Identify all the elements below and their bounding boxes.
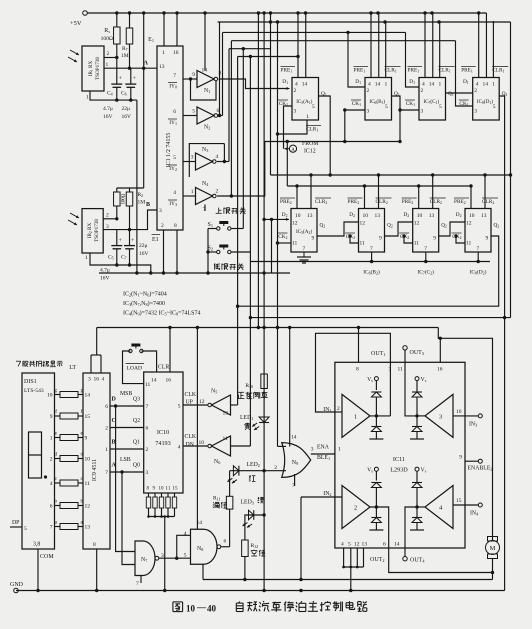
svg-text:14: 14 (394, 542, 400, 548)
svg-text:+5V: +5V (70, 20, 82, 27)
svg-text:IC11: IC11 (393, 456, 405, 463)
wire CK(C2) (404, 236, 413, 243)
LED3 green (248, 514, 265, 516)
junction (343, 140, 346, 143)
svg-text:1: 1 (338, 447, 341, 453)
svg-text:IN4: IN4 (470, 511, 479, 517)
wire TSOP2 out B (103, 210, 157, 230)
junction (483, 173, 486, 176)
wire N2 out (218, 115, 223, 117)
svg-text:11: 11 (292, 241, 298, 247)
wire bus56 PRE1 (238, 56, 298, 58)
svg-text:D2: D2 (282, 212, 288, 218)
junction (329, 173, 332, 176)
svg-text:CLK: CLK (185, 434, 197, 440)
junction (262, 218, 265, 221)
Vs terminal 4 (415, 467, 419, 471)
svg-text:N3: N3 (202, 147, 208, 153)
svg-text:10: 10 (363, 213, 369, 219)
wire v-G (249, 57, 251, 447)
wire N8 vcc (196, 328, 198, 530)
svg-text:2: 2 (161, 223, 164, 229)
wire N3 loop (189, 144, 224, 177)
svg-text:10: 10 (47, 393, 53, 399)
junction (196, 326, 199, 329)
junction (168, 326, 171, 329)
svg-text:CLR1: CLR1 (439, 68, 451, 74)
wire IN4 (453, 504, 478, 506)
svg-text:2: 2 (294, 88, 297, 94)
svg-text:5: 5 (439, 104, 442, 110)
wire CK(C1) feed (400, 109, 419, 111)
junction (262, 326, 265, 329)
svg-text:3: 3 (88, 377, 91, 383)
svg-text:D1: D1 (282, 79, 288, 85)
svg-text:10: 10 (295, 213, 301, 219)
node OUT3 (403, 346, 407, 350)
svg-text:C7: C7 (121, 255, 127, 261)
svg-text:10: 10 (417, 213, 423, 219)
svg-text:DN: DN (186, 442, 195, 448)
wire IN1 (335, 411, 342, 413)
junction (469, 184, 472, 187)
svg-text:4: 4 (184, 531, 187, 537)
wire Q(A2)-D(B2) (317, 222, 359, 236)
svg-text:Q2: Q2 (320, 223, 326, 229)
LED2 red (233, 466, 239, 476)
svg-text:TSOP1738: TSOP1738 (94, 219, 100, 242)
wire Q(D2) out (238, 236, 499, 306)
wire IY0 (183, 78, 197, 80)
switch S2 (217, 250, 220, 253)
svg-text:11: 11 (166, 487, 171, 492)
buffer 4 (425, 486, 453, 529)
svg-text:2: 2 (107, 51, 110, 57)
junction (299, 578, 302, 581)
svg-text:12: 12 (466, 221, 472, 227)
inverter N5 (212, 395, 231, 415)
wire clkdn (183, 445, 208, 447)
svg-text:15: 15 (85, 414, 91, 420)
junction (304, 11, 307, 14)
wire IN2 drop (300, 497, 302, 580)
svg-text:CK1: CK1 (352, 101, 361, 107)
svg-text:10: 10 (85, 457, 91, 463)
svg-text:1: 1 (492, 82, 495, 88)
resistor segment c (55, 482, 61, 484)
svg-text:6: 6 (50, 504, 53, 510)
ground A2 (303, 252, 305, 257)
wire S common (207, 229, 209, 274)
wire BCD B (110, 448, 144, 450)
svg-text:R10: R10 (245, 383, 253, 389)
wire load right (141, 351, 156, 372)
svg-text:5: 5 (173, 155, 176, 161)
label upper limit switch (218, 208, 220, 214)
svg-text:M: M (490, 545, 496, 552)
svg-text:1: 1 (50, 436, 53, 442)
wire IC1 pin2 gnd (163, 230, 165, 273)
wire trunk N5feed (237, 57, 239, 308)
wire CK(B2) (350, 236, 359, 243)
junction (276, 132, 279, 135)
svg-text:7: 7 (136, 581, 139, 587)
junction (162, 11, 165, 14)
junction (477, 11, 480, 14)
resistor R7 1M (129, 13, 131, 28)
junction (223, 160, 226, 163)
svg-text:Q2: Q2 (441, 223, 447, 229)
svg-text:7: 7 (146, 404, 149, 410)
svg-text:LED2: LED2 (247, 462, 260, 468)
wire VCC (378, 13, 380, 78)
svg-text:OUT4: OUT4 (410, 558, 425, 564)
junction (175, 11, 178, 14)
wire N8 out (221, 546, 230, 548)
junction (377, 173, 380, 176)
motor M (488, 537, 498, 542)
svg-text:4: 4 (341, 542, 344, 548)
svg-text:11: 11 (466, 241, 472, 247)
svg-text:12: 12 (85, 504, 91, 510)
junction (142, 11, 145, 14)
wire v271 gnd (271, 219, 273, 273)
svg-text:IC6(B1): IC6(B1) (369, 98, 385, 105)
wire IY2 (183, 161, 196, 163)
wire N3 out (217, 161, 229, 163)
resistor segment a (55, 526, 61, 528)
svg-text:IY1: IY1 (169, 120, 177, 126)
svg-text:3: 3 (439, 414, 442, 421)
flip-flop IC_{7}(C_{1}) (419, 78, 446, 121)
wire bus CLR1 (218, 21, 511, 23)
svg-text:16: 16 (94, 377, 100, 383)
svg-text:N6: N6 (214, 459, 220, 465)
svg-text:5: 5 (493, 104, 496, 110)
svg-text:10: 10 (186, 604, 196, 614)
svg-text:6: 6 (146, 426, 149, 432)
svg-text:d: d (54, 452, 57, 458)
wire CK A1 (284, 106, 293, 149)
svg-text:7: 7 (303, 246, 306, 252)
wire trunk x270 (270, 13, 272, 175)
svg-text:9: 9 (50, 414, 53, 420)
svg-text:Vs: Vs (367, 377, 373, 383)
IR arrows (70, 213, 79, 218)
svg-text:11: 11 (414, 241, 420, 247)
junction (342, 566, 345, 569)
svg-text:DP: DP (12, 520, 19, 526)
wire PRE2 (418, 186, 420, 209)
wire N8 gnd (202, 564, 204, 579)
wire N6 in (231, 445, 251, 447)
ground d1 (369, 438, 383, 440)
svg-text:OUT1: OUT1 (371, 351, 386, 357)
svg-text:6: 6 (383, 542, 386, 548)
svg-text:16V: 16V (103, 114, 113, 120)
wire buf4 node (417, 506, 425, 508)
svg-text:S1: S1 (208, 222, 214, 228)
svg-text:6: 6 (173, 109, 176, 115)
svg-text:1: 1 (86, 95, 89, 101)
resistor R12 (245, 515, 248, 540)
junction (163, 515, 166, 518)
svg-text:PRE2: PRE2 (348, 199, 360, 205)
switch S1 (217, 227, 220, 230)
wire rnet gnd (164, 517, 166, 591)
wire CK(B1) feed (345, 110, 365, 142)
resistor network (161, 493, 163, 497)
svg-text:CLR1: CLR1 (385, 68, 397, 74)
svg-text:3: 3 (367, 109, 370, 115)
wire PRE2 (296, 186, 298, 209)
junction (375, 505, 378, 508)
svg-text:4: 4 (295, 82, 298, 88)
svg-text:2: 2 (367, 88, 370, 94)
svg-text:D1: D1 (409, 79, 415, 85)
svg-text:4: 4 (422, 82, 425, 88)
wire LED2 branch (230, 470, 286, 472)
wire D(C1) feed (406, 32, 420, 87)
junction (135, 271, 138, 274)
svg-text:CLR1: CLR1 (492, 68, 504, 74)
svg-text:22μ: 22μ (139, 243, 148, 249)
svg-text:1M: 1M (138, 200, 146, 206)
svg-text:4: 4 (50, 481, 53, 487)
svg-text:S2: S2 (208, 246, 214, 252)
junction (503, 316, 506, 319)
wire pin8 vcc (358, 328, 360, 363)
resistor R3 100ohm body (126, 192, 133, 206)
svg-text:Q2: Q2 (133, 418, 140, 424)
junction (276, 326, 279, 329)
svg-text:g: g (54, 388, 57, 394)
svg-text:Q1: Q1 (448, 91, 454, 97)
svg-text:LED3: LED3 (241, 500, 254, 506)
resistor segment d (55, 458, 61, 460)
diode pair 3 (412, 392, 422, 397)
Vs terminal 1 (374, 377, 378, 381)
svg-text:PRE2: PRE2 (280, 199, 292, 205)
junction (257, 11, 260, 14)
resistor Rs 100ohm (116, 13, 118, 27)
junction (276, 20, 279, 23)
junction (417, 184, 420, 187)
wire N9 out (311, 453, 335, 455)
svg-text:10: 10 (456, 409, 462, 415)
wire pin14 internal (405, 507, 417, 548)
svg-text:15: 15 (173, 487, 179, 492)
wire BCD A (110, 471, 144, 473)
svg-text:5: 5 (24, 526, 27, 532)
svg-text:Vs: Vs (367, 468, 373, 474)
ground d2 (369, 529, 383, 531)
wire N5 in (231, 404, 238, 406)
buffer 3 (425, 394, 453, 437)
svg-text:C5: C5 (108, 255, 114, 261)
junction (309, 173, 312, 176)
svg-text:1: 1 (162, 50, 165, 56)
svg-text:12: 12 (199, 399, 205, 405)
diode pair 2 (371, 483, 381, 488)
IR receiver IR2 RX TSOP1738 (82, 209, 103, 253)
resistor R10 (261, 374, 268, 389)
svg-text:N4: N4 (202, 181, 209, 187)
junction (230, 194, 233, 197)
junction (162, 271, 165, 274)
svg-text:2: 2 (474, 88, 477, 94)
svg-text:D1: D1 (355, 79, 361, 85)
caption (173, 601, 183, 603)
svg-text:IC12: IC12 (304, 149, 316, 155)
wire trunk x277 (277, 22, 279, 446)
junction (114, 404, 117, 407)
svg-text:1: 1 (306, 114, 309, 120)
svg-text:IC4(N9)=7432 IC5~IC8=74LS74: IC4(N9)=7432 IC5~IC8=74LS74 (123, 310, 201, 317)
junction (249, 316, 252, 319)
wire D(B1) feed (348, 32, 365, 87)
svg-text:13: 13 (429, 213, 435, 219)
junction (257, 326, 260, 329)
svg-text:4: 4 (178, 445, 181, 451)
wire N7 out (159, 557, 191, 559)
junction (269, 11, 272, 14)
svg-text:N5: N5 (211, 389, 217, 395)
svg-text:1: 1 (105, 447, 108, 453)
svg-text:IC2(N1~N6)=7404: IC2(N1~N6)=7404 (123, 291, 167, 298)
svg-text:IY2: IY2 (169, 166, 177, 172)
svg-text:Q1: Q1 (133, 440, 140, 446)
svg-text:Q2: Q2 (387, 223, 393, 229)
svg-text:IC6(B2): IC6(B2) (363, 269, 380, 276)
wire TSOP2 pin2 (103, 218, 117, 220)
wire PRE (424, 13, 426, 78)
svg-text:15: 15 (456, 498, 462, 504)
svg-text:R7: R7 (122, 46, 128, 52)
junction (243, 578, 246, 581)
svg-text:14: 14 (429, 82, 435, 88)
wire IC9 gnd (96, 549, 98, 591)
svg-text:CLR: CLR (158, 365, 169, 371)
svg-text:FROM: FROM (302, 141, 318, 147)
svg-text:11: 11 (85, 481, 91, 487)
svg-text:A: A (291, 148, 295, 153)
svg-text:CLK: CLK (185, 392, 197, 398)
svg-text:2: 2 (216, 189, 219, 195)
svg-text:1: 1 (106, 62, 109, 68)
svg-text:3,8: 3,8 (33, 542, 40, 548)
wire VCC (305, 13, 307, 78)
wire BCD D (110, 405, 144, 407)
wire CLR2 (378, 175, 380, 209)
svg-text:16: 16 (173, 50, 179, 56)
svg-text:7: 7 (173, 73, 176, 79)
pushbutton LOAD (129, 349, 132, 352)
svg-text:14: 14 (375, 82, 381, 88)
junction (296, 55, 299, 58)
wire N7 in1 (116, 406, 135, 552)
or gate N9 (282, 443, 311, 478)
junction (270, 218, 273, 221)
wire S2 left (208, 251, 216, 253)
svg-text:R2: R2 (138, 192, 144, 198)
junction (398, 140, 401, 143)
wire N9 vcc (289, 328, 291, 447)
wire N9 gnd stub (294, 474, 296, 486)
inverter N1 (197, 71, 214, 88)
svg-text:L293D: L293D (390, 467, 408, 474)
junction (509, 173, 512, 176)
junction (357, 326, 360, 329)
wire bus PRE2 (287, 185, 471, 187)
junction (276, 241, 279, 244)
wire trunk LED (263, 13, 265, 591)
wire (117, 187, 144, 189)
svg-text:9: 9 (459, 455, 462, 461)
junction (115, 56, 118, 59)
svg-text:100Ω: 100Ω (122, 193, 127, 204)
svg-text:7: 7 (105, 470, 108, 476)
svg-text:8: 8 (174, 223, 177, 229)
svg-text:3: 3 (191, 155, 194, 161)
svg-text:f: f (81, 408, 83, 415)
svg-text:16: 16 (437, 367, 443, 373)
wire VCC (485, 13, 487, 78)
svg-text:11: 11 (398, 367, 404, 373)
svg-text:3: 3 (294, 109, 297, 115)
wire load left (123, 351, 144, 384)
svg-text:PRE1: PRE1 (354, 68, 366, 74)
junction (128, 67, 131, 70)
wire bus40 (231, 40, 455, 42)
wire S1 right (231, 228, 243, 230)
junction (491, 571, 494, 574)
svg-text:IN2: IN2 (323, 491, 331, 497)
svg-text:10: 10 (469, 213, 475, 219)
svg-text:C4: C4 (107, 91, 113, 97)
junction (477, 260, 480, 263)
node +5V supply terminal (83, 11, 88, 16)
svg-text:40: 40 (207, 604, 217, 614)
svg-text:14: 14 (202, 68, 208, 74)
svg-text:11: 11 (360, 241, 366, 247)
wire Q(D1) to right trunk (499, 96, 505, 591)
svg-text:3: 3 (159, 208, 162, 214)
svg-text:IC7(C1): IC7(C1) (423, 98, 439, 105)
flip-flop IC_{5}(A_{2}) (291, 209, 317, 253)
svg-text:1: 1 (354, 414, 357, 421)
svg-text:14: 14 (302, 82, 308, 88)
wire v-E (228, 49, 230, 162)
svg-text:13: 13 (375, 213, 381, 219)
svg-text:LOAD: LOAD (127, 366, 143, 372)
svg-text:CK2: CK2 (278, 234, 287, 240)
resistor network (174, 493, 176, 497)
wire Q(A1) down (319, 96, 331, 175)
svg-text:2: 2 (274, 465, 277, 471)
svg-text:6: 6 (105, 404, 108, 410)
svg-text:R12: R12 (251, 543, 259, 549)
junction (115, 217, 118, 220)
wire pullup feed (143, 13, 145, 188)
buffer 2 (342, 486, 370, 529)
svg-text:1M: 1M (121, 53, 129, 59)
svg-text:14: 14 (151, 378, 157, 384)
svg-text:GND: GND (10, 582, 24, 588)
wire PRE (370, 13, 372, 78)
svg-text:f: f (55, 408, 57, 415)
junction (349, 589, 352, 592)
